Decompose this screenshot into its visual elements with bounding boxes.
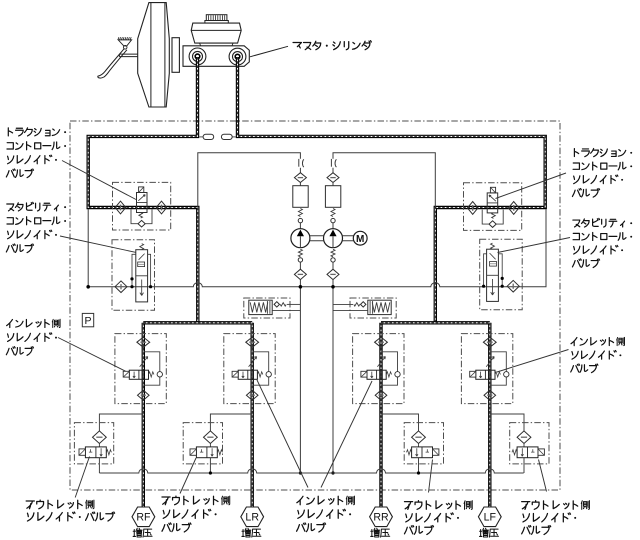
port orifice 2 [232,136,236,138]
wire: RF outlet feed [99,414,143,431]
accumulator A1 [249,300,286,314]
pump P1 column [298,159,300,167]
motor M [353,231,367,245]
port orifice 1 [199,136,203,138]
label: RR pressure-increase [371,528,390,537]
leader outlet RR [429,460,433,493]
node P [82,313,93,326]
leader inlet-right [497,350,569,373]
inlet solenoid valve LR [232,337,271,400]
svg-text:P: P [84,315,91,327]
wire: suction return line [88,209,546,287]
reservoir cap [206,15,227,21]
leader: master cylinder label [250,46,288,57]
label: outlet solenoid valve (RR) [404,501,472,535]
label: LF pressure-increase [479,528,498,537]
svg-text:RR: RR [373,512,389,524]
outlet solenoid valve RR [407,431,439,473]
pump P2 column [330,159,332,167]
svg-text:LF: LF [484,512,497,524]
stability control solenoid valve SL [115,244,152,302]
stability control solenoid valve SR [482,243,519,301]
leader inlet RR [321,381,372,488]
svg-text:RF: RF [136,512,151,524]
label: inlet solenoid valve (left) [6,319,60,355]
leader TR [496,173,567,199]
leader SR [498,238,571,253]
wire: pump top line right [333,153,435,208]
leader SL [60,236,136,252]
label: RF pressure-increase [133,528,152,537]
wire: RR outlet feed [381,414,419,431]
node RF [132,507,155,527]
wire: LR outlet feed [210,414,252,431]
brake pedal [118,37,119,40]
label: traction control solenoid valve (right) [572,149,632,198]
label: master cylinder [293,41,371,50]
label: outlet solenoid valve (LF) [522,501,590,535]
outlet solenoid valve RF [79,431,111,473]
node LR [241,507,264,527]
brake booster [138,3,170,107]
label: traction control solenoid valve (left) [6,128,66,178]
label: inlet solenoid valve (bottom center) [297,496,355,532]
booster push rod [119,54,138,57]
inlet solenoid valve RF [123,337,162,400]
outlet port 1 [189,48,206,65]
label: stability control solenoid valve (right) [572,218,632,267]
label: outlet solenoid valve (far left) [26,500,114,521]
leader TL [62,161,136,200]
reservoir [191,23,241,43]
outlet solenoid valve LR [190,431,222,473]
leader inlet-left [58,338,126,372]
wire: LF outlet feed [490,414,524,431]
leader outlet LF [539,460,547,492]
hydraulic unit boundary [70,121,560,490]
traction control solenoid valve TR [467,187,519,227]
pump drive shaft [310,236,354,241]
leader outlet RF [75,457,89,498]
outlet port 2 [229,48,246,65]
wire circuit2: port2, right header, traction row, center drop [238,57,546,323]
wire circuit1: port1, left header, traction row, center drop [88,57,198,323]
inlet solenoid valve LF [470,337,509,400]
label: inlet solenoid valve (right) [571,337,625,372]
wire: pump top line left [198,153,301,208]
leader inlet LR [257,380,308,488]
label: LR pressure-increase [242,528,261,537]
label: stability control solenoid valve (left) [6,202,66,252]
node RR [370,507,393,527]
inlet solenoid valve RR [361,337,400,400]
outlet solenoid valve LF [512,431,544,473]
wire circuit2 tee to RR / LF [381,323,490,508]
leader outlet LR [180,458,196,494]
svg-text:LR: LR [245,512,259,524]
accumulator A2 [354,300,391,314]
node LF [478,507,501,527]
wire: outlet return line [99,469,523,473]
traction control solenoid valve TL [115,187,167,227]
label: outlet solenoid valve (LR) [162,496,230,532]
wire circuit1 tee to RF / LR [143,323,252,508]
svg-text:M: M [356,234,364,245]
master cylinder body [183,46,249,67]
